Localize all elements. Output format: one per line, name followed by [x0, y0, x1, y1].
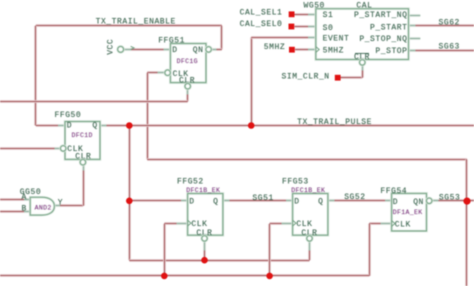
pin stub WG50 S1 [308, 13, 316, 16]
junction FFG53 CLK / clock rail [266, 273, 273, 280]
net SG63 from P_STOP [409, 49, 474, 52]
svg-text:SG62: SG62 [439, 18, 460, 27]
wire FFG50 Q [100, 124, 129, 127]
svg-text:S1: S1 [323, 11, 334, 20]
bubble FFG54 QN [426, 198, 432, 204]
bubble FFG50 CLR [80, 159, 86, 165]
pin stub VCC pin [124, 48, 131, 51]
terminal 5MHZ [289, 47, 295, 53]
pin stub FFG53 CLR [308, 241, 311, 250]
pin stub WG50 P_STOP [409, 49, 416, 52]
clock wedge FFG52 [188, 220, 191, 226]
pin stub FFG50 Q [100, 124, 107, 127]
net GG50 input B [0, 210, 30, 213]
net TX_TRAIL_PULSE [129, 124, 474, 127]
svg-text:DF1A_EK: DF1A_EK [393, 209, 423, 216]
net FFG54 QN feedback to FFG51 CLK [147, 71, 164, 74]
net CAL_SEL1 [295, 13, 316, 16]
svg-text:SG63: SG63 [439, 43, 460, 52]
pin stub FFG54 CLK [381, 222, 392, 225]
net SG53 (FFG54 QN) [432, 199, 474, 202]
svg-text:D: D [393, 198, 398, 207]
svg-text:DFC1B_EK: DFC1B_EK [186, 187, 220, 194]
clock wedge FFG53 [293, 220, 296, 226]
svg-text:D: D [172, 46, 177, 55]
svg-text:FFG52: FFG52 [177, 178, 204, 187]
svg-text:CAL: CAL [356, 1, 372, 10]
pin stub FFG52 D [181, 199, 188, 202]
bubble FFG50 CLK [60, 146, 66, 152]
net FFG50 CLK [0, 147, 61, 150]
power symbol VCC [118, 46, 124, 52]
svg-text:FFG53: FFG53 [282, 178, 309, 187]
svg-text:CLK: CLK [296, 220, 312, 229]
net SG52 (FFG53 Q to FFG54 D) [328, 199, 392, 202]
bubble FFG53 CLR [307, 236, 313, 242]
net GG50 Y to FFG50 CLR [54, 204, 83, 207]
svg-text:SG53: SG53 [439, 193, 460, 202]
clock wedge FFG54 [392, 221, 395, 227]
pin stub FFG52 Q [223, 199, 230, 202]
net GG50 input A [0, 198, 30, 201]
junction FFG52 CLR branch [201, 257, 208, 264]
svg-text:QN: QN [193, 46, 204, 55]
pin stub FFG53 CLK [282, 222, 293, 225]
svg-text:DFC1G: DFC1G [177, 58, 198, 65]
svg-text:Q: Q [92, 122, 97, 131]
net CAL_SEL0 [295, 25, 316, 28]
pin stub GG50 B [24, 210, 30, 213]
svg-text:SG51: SG51 [252, 194, 273, 203]
net 5MHZ [295, 48, 316, 51]
wire FFG52 CLR to bottom branch [203, 241, 206, 260]
svg-text:5MHZ: 5MHZ [264, 43, 285, 52]
net SG62 from P_START [409, 24, 474, 27]
wire FFG54 CLK [369, 222, 391, 225]
junction at FFG50 Q / TX_TRAIL_PULSE [126, 122, 133, 129]
net SIM_CLR_N [341, 76, 363, 79]
flip-flop FFG54 [392, 193, 427, 231]
flip-flop FFG53 [293, 194, 328, 236]
svg-text:CAL_SEL1: CAL_SEL1 [240, 9, 283, 18]
net FFG51 CLR [186, 89, 189, 101]
pin stub FFG51 CLR [186, 89, 189, 94]
svg-text:P_STOP: P_STOP [375, 47, 407, 56]
svg-text:B: B [22, 204, 27, 213]
junction SG53 / feedback [463, 198, 470, 205]
svg-text:VCC: VCC [107, 39, 116, 55]
svg-text:P_START_NQ: P_START_NQ [354, 11, 408, 20]
terminal SIM_CLR_N [335, 75, 341, 81]
svg-text:D: D [189, 198, 194, 207]
svg-text:Q: Q [318, 198, 323, 207]
svg-text:CLK: CLK [395, 220, 411, 229]
svg-text:QN: QN [413, 198, 424, 207]
svg-text:FFG50: FFG50 [55, 111, 82, 120]
svg-text:DFC1D: DFC1D [72, 132, 93, 139]
terminal CAL_SEL1 [289, 11, 295, 17]
bubble FFG51 CLR [185, 83, 191, 89]
pin stub FFG50 D [58, 124, 65, 127]
pin stub FFG50 CLK [55, 147, 61, 150]
junction FFG52 CLK / clock rail [161, 273, 168, 280]
pin stub FFG54 QN [432, 199, 439, 202]
wire VCC to FFG51 D [124, 48, 171, 51]
pin stub WG50 P_START [409, 24, 416, 27]
svg-text:AND2: AND2 [35, 205, 52, 212]
pin stub FFG53 D [286, 199, 293, 202]
pin stub FFG50 CLR [82, 165, 85, 170]
svg-text:SIM_CLR_N: SIM_CLR_N [282, 73, 330, 82]
pin stub FFG51 QN [211, 48, 217, 51]
wire FFG53 CLK [270, 222, 293, 225]
pin stub WG50 CLR [361, 65, 364, 70]
svg-text:5MHZ: 5MHZ [323, 46, 344, 55]
junction EVENT / TX_TRAIL_PULSE [248, 122, 255, 129]
svg-text:SG52: SG52 [344, 193, 365, 202]
svg-text:P_STOP_NQ: P_STOP_NQ [359, 35, 407, 44]
stub P_START_NQ [409, 14, 421, 17]
svg-text:A: A [22, 193, 27, 202]
component WG50 CAL [316, 9, 409, 60]
svg-text:Q: Q [213, 198, 218, 207]
flip-flop FFG52 [188, 194, 223, 236]
svg-text:S0: S0 [323, 24, 334, 33]
pin stub WG50 EVENT [308, 36, 316, 39]
svg-text:WG50: WG50 [304, 1, 325, 10]
bubble FFG51 CLK [165, 70, 171, 76]
terminal CAL_SEL0 [289, 24, 295, 30]
pin stub GG50 A [24, 198, 30, 201]
pin stub FFG53 Q [328, 199, 335, 202]
pin stub GG50 Y [54, 204, 60, 207]
svg-text:Y: Y [58, 198, 63, 207]
wire FFG52 CLK [164, 222, 187, 225]
flip-flop FFG51 [170, 44, 206, 83]
pin stub FFG54 D [385, 199, 392, 202]
bubble FFG52 CLR [202, 236, 208, 242]
svg-text:CLK: CLK [191, 220, 207, 229]
net TX_TRAIL_ENABLE (FFG51 QN to FFG50 D) [36, 24, 222, 27]
clock wedge WG50 5MHZ [316, 47, 319, 53]
svg-text:FFG51: FFG51 [158, 36, 185, 45]
pin stub WG50 S0 [308, 25, 316, 28]
svg-text:CAL_SEL0: CAL_SEL0 [240, 20, 283, 29]
pin stub FFG51 D [164, 48, 171, 51]
net EVENT from TX_TRAIL_PULSE to WG50 [250, 37, 253, 125]
pin stub FFG51 CLK [158, 71, 165, 74]
svg-text:D: D [294, 198, 299, 207]
pin stub WG50 5MHZ [308, 48, 316, 51]
svg-text:D: D [67, 122, 72, 131]
svg-text:TX_TRAIL_ENABLE: TX_TRAIL_ENABLE [96, 17, 176, 26]
junction FFG52 D branch [126, 198, 133, 205]
bubble FFG51 QN [206, 47, 212, 53]
flip-flop FFG50 [65, 122, 100, 160]
net TX_TRAIL_PULSE branch to FFG52 D and CLR clears [128, 126, 131, 261]
svg-text:FFG54: FFG54 [380, 187, 407, 196]
pin stub FFG52 CLK [177, 222, 188, 225]
pin stub FFG52 CLR [203, 241, 206, 250]
bubble WG50 CLR [360, 60, 366, 66]
svg-text:DFC1B_EK: DFC1B_EK [291, 187, 325, 194]
svg-text:TX_TRAIL_PULSE: TX_TRAIL_PULSE [297, 118, 372, 127]
net bottom clock rail [0, 274, 369, 277]
stub P_STOP_NQ [409, 37, 421, 40]
svg-text:P_START: P_START [370, 23, 407, 32]
and-gate GG50 AND2 [30, 197, 54, 215]
net SG51 (FFG52 Q to FFG53 D) [223, 199, 293, 202]
svg-text:EVENT: EVENT [323, 35, 350, 44]
